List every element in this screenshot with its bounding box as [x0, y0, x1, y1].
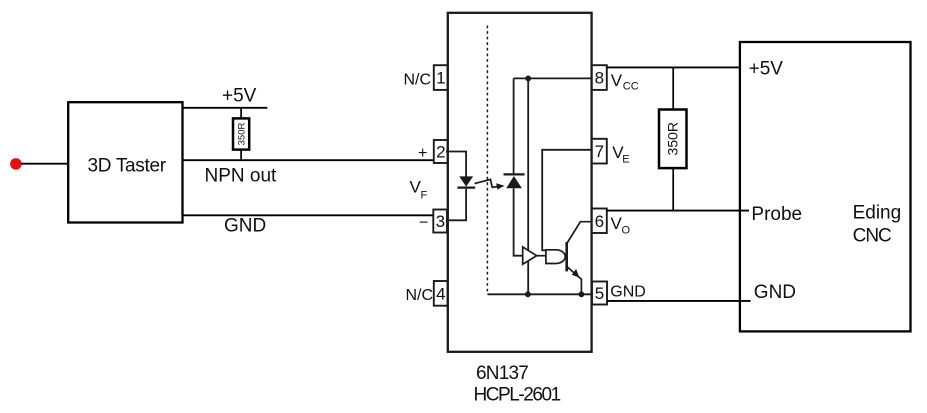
svg-text:350R: 350R: [665, 122, 681, 155]
svg-text:−: −: [419, 215, 428, 232]
svg-text:GND: GND: [754, 282, 796, 303]
svg-text:CNC: CNC: [853, 226, 891, 247]
wire: photodiode anode to amp input: [514, 188, 523, 255]
resistor R1 350R (left): [233, 108, 249, 160]
wire: VCC rail from pin8: [514, 77, 592, 79]
svg-text:+5V: +5V: [749, 58, 784, 79]
junction dot (amp gnd): [525, 291, 531, 297]
pin 3 box: [433, 210, 447, 233]
svg-text:1: 1: [436, 69, 445, 88]
svg-text:N/C: N/C: [404, 72, 432, 89]
wire: pin7 VE to gate input: [542, 150, 592, 251]
pin 5 box: [592, 282, 607, 305]
label VO: [611, 214, 631, 237]
svg-text:E: E: [622, 154, 629, 166]
svg-text:V: V: [611, 71, 623, 90]
label VE: [612, 143, 629, 166]
wire: pin6 VO to Probe: [607, 210, 749, 212]
label VF: [410, 178, 428, 202]
svg-text:GND: GND: [610, 284, 646, 301]
wire: pin2 to LED anode: [446, 152, 466, 177]
svg-text:7: 7: [595, 142, 604, 161]
svg-text:6N137: 6N137: [476, 363, 528, 384]
svg-text:8: 8: [595, 69, 604, 88]
svg-text:F: F: [421, 190, 428, 202]
svg-text:CC: CC: [623, 80, 639, 92]
svg-text:+: +: [418, 145, 427, 162]
IC body 6N137: [448, 13, 592, 352]
wire: amp output to gate: [537, 255, 547, 257]
wire: internal GND rail: [487, 293, 592, 295]
pin 6 box: [592, 209, 607, 234]
svg-text:Eding: Eding: [853, 202, 902, 223]
wire: probe tip to 3D Taster: [21, 163, 68, 165]
amplifier U1a (buffer triangle): [523, 247, 537, 264]
pin 1 box: [434, 65, 448, 90]
junction dot (emitter gnd): [579, 291, 585, 297]
wire: NPN out: [183, 159, 434, 161]
svg-text:Probe: Probe: [751, 204, 802, 225]
wire: LED cathode to pin3: [446, 189, 466, 221]
junction dot (VCC): [525, 76, 531, 82]
Eding CNC box: [740, 42, 911, 331]
svg-text:+5V: +5V: [222, 86, 257, 107]
svg-text:O: O: [622, 224, 631, 236]
pin 7 box: [592, 139, 607, 164]
photodiode D2: [504, 174, 525, 188]
wire: photodiode column upper: [513, 78, 515, 173]
probe tip node (red): [10, 158, 22, 170]
wire: +5V stub at taster: [183, 107, 267, 109]
svg-text:5: 5: [595, 284, 604, 303]
svg-text:HCPL-2601: HCPL-2601: [474, 385, 561, 406]
wire: VCC feed down to amp/gnd rail: [527, 78, 529, 294]
svg-text:4: 4: [436, 284, 445, 303]
pin 2 box: [434, 140, 448, 163]
light arrow: [475, 179, 505, 189]
svg-text:350R: 350R: [236, 123, 247, 146]
svg-text:NPN out: NPN out: [205, 165, 278, 186]
resistor R2 350R (right): [659, 67, 687, 210]
transistor Q1: [567, 222, 592, 295]
label VCC: [611, 71, 639, 92]
internal shield (dashed): [486, 26, 488, 294]
svg-text:N/C: N/C: [406, 287, 434, 304]
svg-text:GND: GND: [224, 216, 266, 237]
AND gate U1b: [546, 250, 565, 264]
wire: pin5 GND to Eding GND: [608, 300, 751, 302]
wire: GND (taster to pin3): [183, 214, 434, 216]
pin 8 box: [592, 65, 607, 90]
svg-text:2: 2: [436, 143, 445, 162]
LED D1 (emitter diode): [457, 176, 475, 187]
svg-text:3D Taster: 3D Taster: [88, 156, 167, 177]
3D Taster box: [68, 102, 182, 222]
pin 4 box: [434, 281, 448, 306]
wire: pin8 to Eding +5V: [607, 66, 739, 68]
svg-text:6: 6: [595, 212, 604, 231]
svg-text:3: 3: [436, 212, 445, 231]
